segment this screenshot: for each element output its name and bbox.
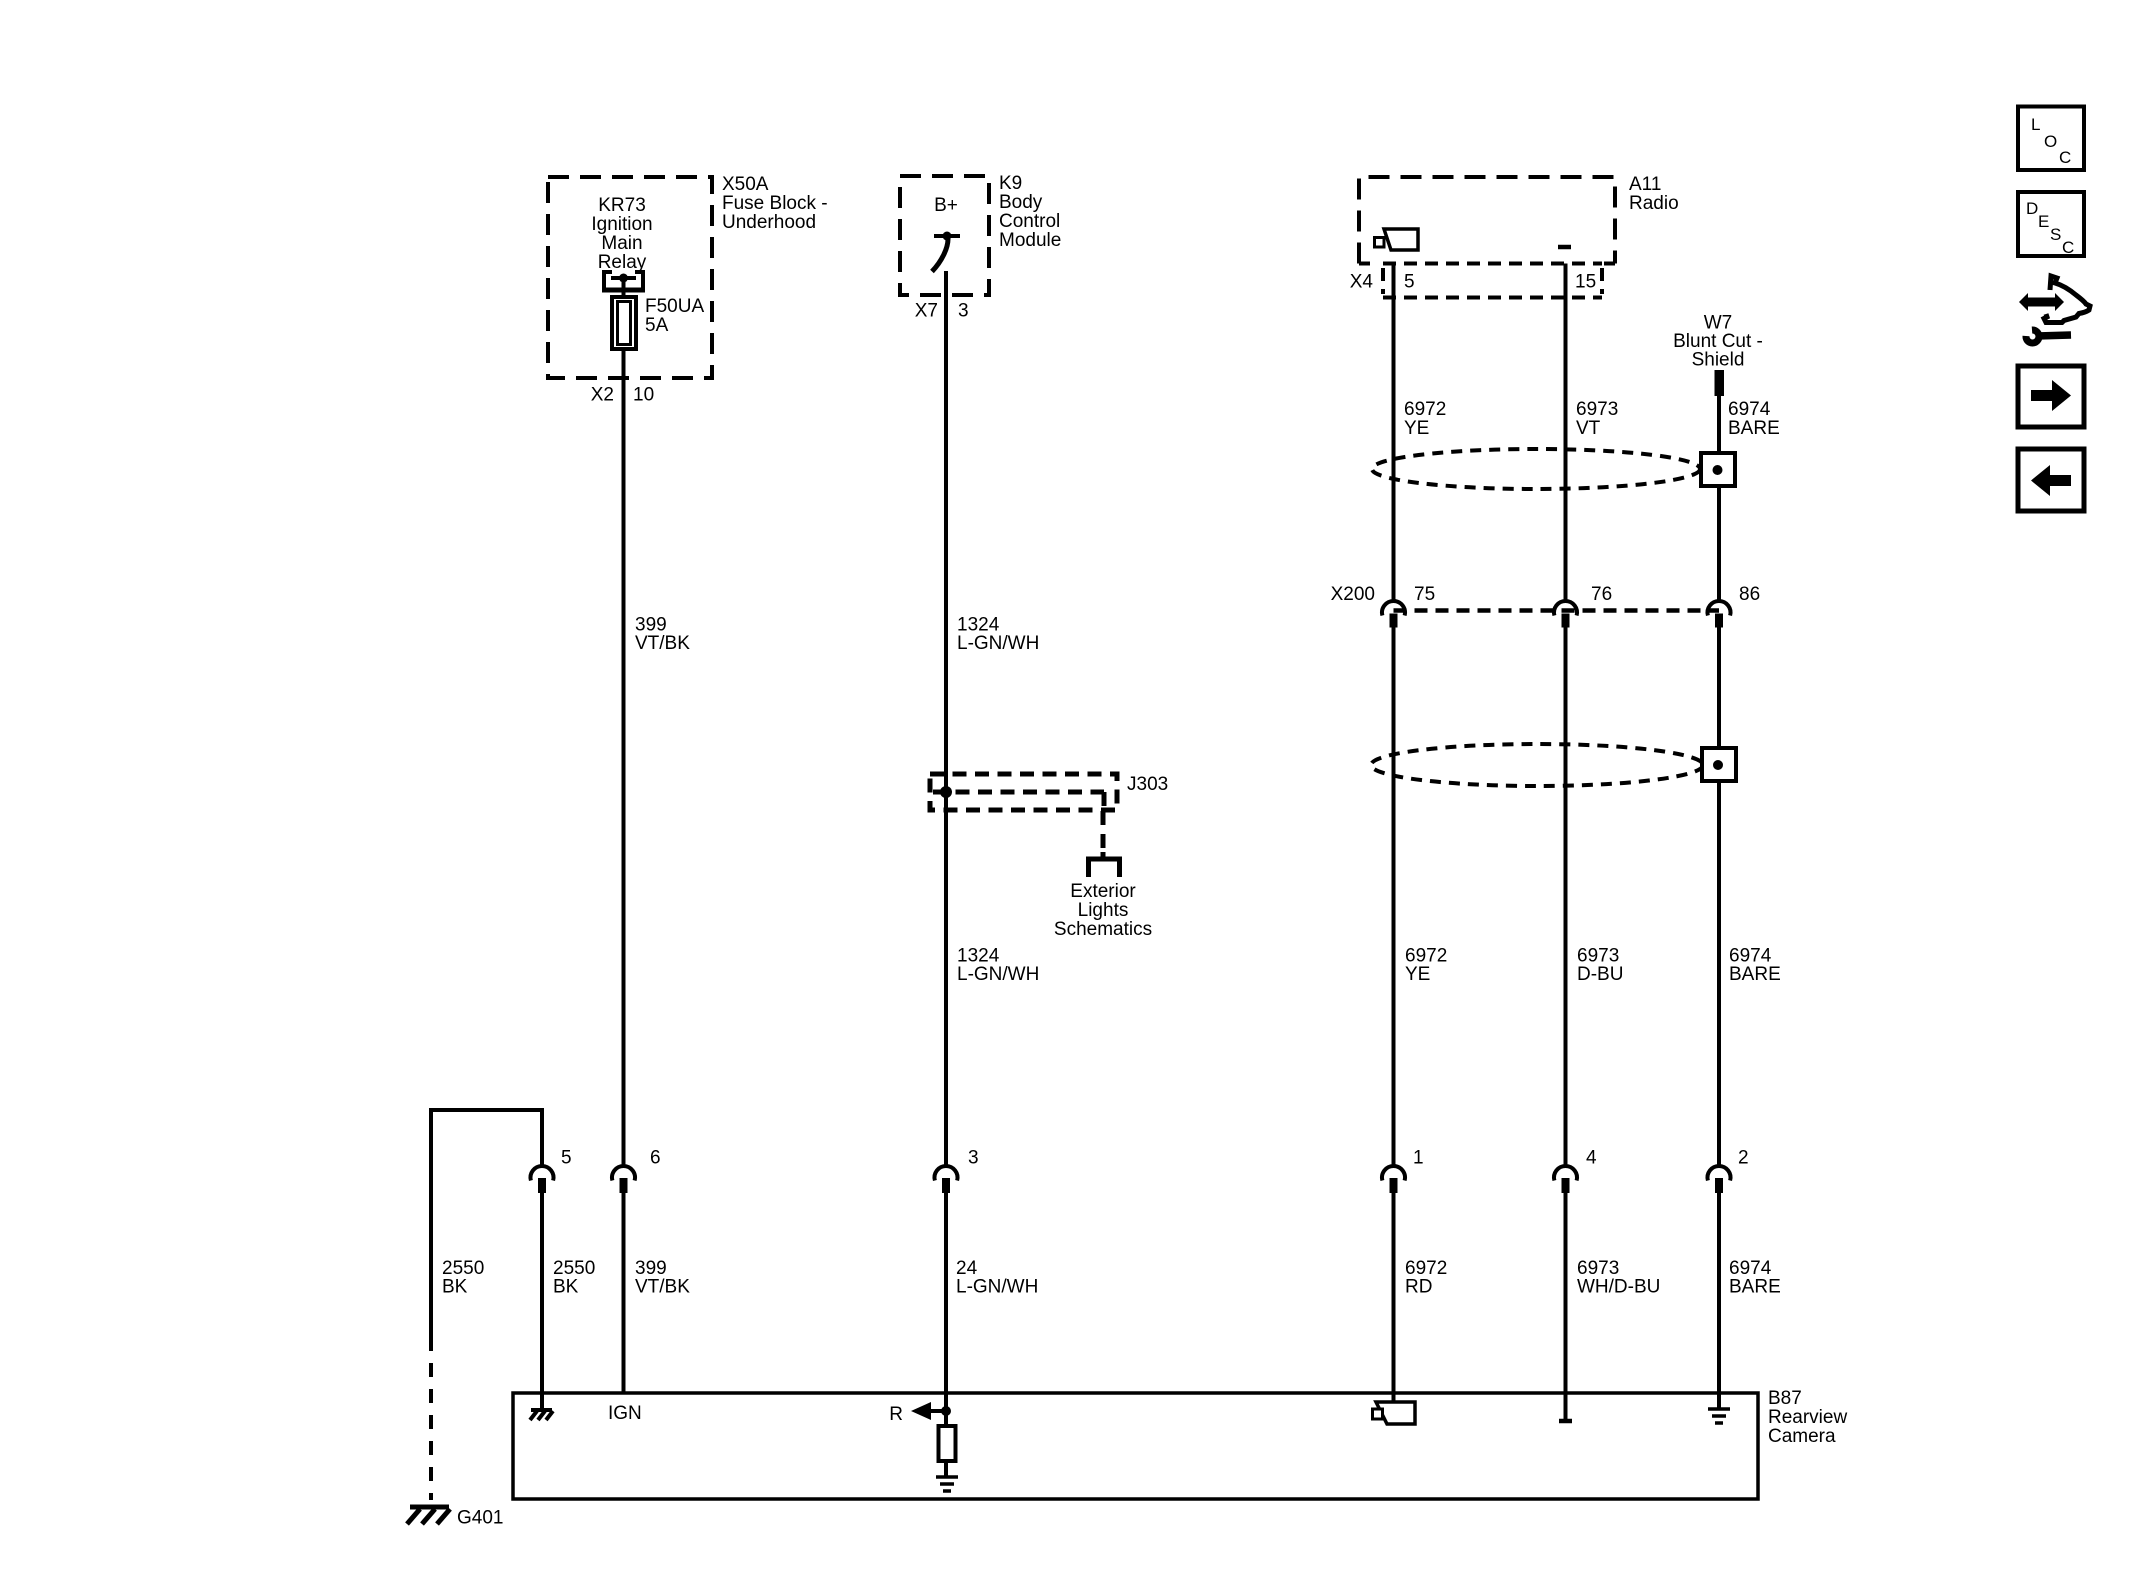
svg-text:Fuse Block -: Fuse Block - xyxy=(722,193,828,214)
svg-text:BK: BK xyxy=(553,1277,579,1298)
connector X200 dashed line xyxy=(1394,608,1720,613)
svg-text:Shield: Shield xyxy=(1692,350,1745,371)
wire label 2550 BK (pin 5) xyxy=(553,1258,595,1298)
svg-text:RD: RD xyxy=(1405,1277,1432,1298)
svg-text:86: 86 xyxy=(1739,584,1760,605)
node B+ xyxy=(934,195,958,216)
svg-text:15: 15 xyxy=(1575,272,1596,293)
R arrow xyxy=(911,1402,951,1420)
svg-text:O: O xyxy=(2044,132,2057,151)
svg-text:YE: YE xyxy=(1405,964,1430,985)
K9 Body Control Module label xyxy=(999,173,1061,251)
internal resistor xyxy=(939,1411,956,1477)
svg-text:IGN: IGN xyxy=(608,1403,642,1424)
splice junction dot on wire xyxy=(940,786,952,798)
wire label 6972 YE (middle) xyxy=(1405,946,1447,986)
wire 6974 BARE (blunt cut to X200) xyxy=(1717,396,1721,600)
svg-text:X50A: X50A xyxy=(722,174,769,195)
relay KR73 contact symbol xyxy=(602,272,645,290)
svg-text:Body: Body xyxy=(999,192,1043,213)
wire label 6972 YE (upper) xyxy=(1404,399,1446,439)
X200 pin 75 connector symbol xyxy=(1382,601,1405,628)
ground G401 symbol xyxy=(407,1507,450,1524)
rearview camera B87 box xyxy=(513,1393,1758,1499)
A11 Radio label xyxy=(1629,174,1679,214)
svg-text:L-GN/WH: L-GN/WH xyxy=(957,964,1039,985)
svg-text:Lights: Lights xyxy=(1078,900,1129,921)
svg-text:X4: X4 xyxy=(1350,272,1374,293)
W7 Blunt Cut - Shield label xyxy=(1673,313,1763,371)
svg-text:4: 4 xyxy=(1586,1148,1597,1169)
splice J303 dashed box xyxy=(930,774,1117,810)
minus pin icon in radio xyxy=(1558,245,1571,250)
svg-text:6974: 6974 xyxy=(1728,399,1771,420)
wire 6973 D-BU (X200 to pin 4) xyxy=(1564,627,1568,1165)
camera pin 5 connector symbol xyxy=(531,1148,572,1194)
svg-text:VT/BK: VT/BK xyxy=(635,1277,690,1298)
svg-text:B87: B87 xyxy=(1768,1388,1802,1409)
svg-text:5A: 5A xyxy=(645,315,669,336)
BCM switch symbol xyxy=(932,232,960,272)
svg-text:G401: G401 xyxy=(457,1508,503,1529)
svg-text:BARE: BARE xyxy=(1728,418,1780,439)
svg-text:J303: J303 xyxy=(1127,774,1168,795)
svg-text:76: 76 xyxy=(1591,584,1612,605)
radio A11 dashed box xyxy=(1359,177,1615,264)
svg-text:C: C xyxy=(2062,238,2074,257)
wire 399 VT/BK (fuse to pin 6) xyxy=(622,349,626,1165)
svg-text:F50UA: F50UA xyxy=(645,296,704,317)
wire pin 5 to camera box xyxy=(540,1193,544,1408)
camera pin 1 connector symbol xyxy=(1382,1148,1424,1194)
wire 1324 L-GN/WH (splice to pin 3) xyxy=(944,792,948,1165)
wire label 399 VT/BK (lower) xyxy=(635,1258,690,1298)
connector X4 labels xyxy=(1350,272,1596,293)
wire label 2550 BK (left) xyxy=(442,1258,484,1298)
wire label 6973 D-BU (middle) xyxy=(1577,946,1623,986)
svg-text:5: 5 xyxy=(1404,272,1415,293)
connector X7 pin 3 labels xyxy=(915,301,969,322)
svg-text:E: E xyxy=(2038,212,2049,231)
svg-text:VT: VT xyxy=(1576,418,1601,439)
wire pin 4 to minus pin xyxy=(1564,1193,1568,1419)
wire label 6974 BARE (lower) xyxy=(1729,1258,1781,1298)
Exterior Lights Schematics label xyxy=(1054,881,1152,940)
wire 1324 L-GN/WH (BCM to splice) xyxy=(944,271,948,792)
camera icon in radio xyxy=(1375,229,1419,250)
shield cable ellipse 1 xyxy=(1372,449,1735,489)
wire label 6974 BARE (middle) xyxy=(1729,946,1781,986)
svg-text:6972: 6972 xyxy=(1404,399,1446,420)
svg-text:6: 6 xyxy=(650,1148,661,1169)
svg-text:VT/BK: VT/BK xyxy=(635,633,690,654)
wire 6973 VT (radio to X200) xyxy=(1564,264,1568,601)
svg-text:BK: BK xyxy=(442,1277,468,1298)
connector X200 labels xyxy=(1331,584,1761,605)
svg-text:L: L xyxy=(2031,115,2040,134)
svg-text:A11: A11 xyxy=(1629,174,1661,195)
wire 6972 YE (X200 to pin 1) xyxy=(1392,627,1396,1165)
svg-text:Camera: Camera xyxy=(1768,1426,1836,1447)
svg-text:2: 2 xyxy=(1738,1148,1749,1169)
svg-text:1: 1 xyxy=(1413,1148,1424,1169)
svg-text:X2: X2 xyxy=(591,385,614,406)
wire label 6973 VT (upper) xyxy=(1576,399,1618,439)
X200 pin 86 connector symbol xyxy=(1708,601,1731,628)
X200 pin 76 connector symbol xyxy=(1554,601,1577,628)
sidebar LOC button xyxy=(2018,107,2084,171)
wire label 1324 L-GN/WH (upper) xyxy=(957,615,1039,655)
BCM K9 dashed box xyxy=(900,176,989,295)
svg-text:Main: Main xyxy=(601,233,642,254)
wire pin 1 to camera icon xyxy=(1392,1193,1396,1403)
sidebar DESC button xyxy=(2018,192,2084,257)
off-page connector fork to Exterior Lights xyxy=(1086,852,1122,877)
minus pin icon in camera box xyxy=(1559,1419,1572,1424)
svg-text:Underhood: Underhood xyxy=(722,212,816,233)
svg-text:Control: Control xyxy=(999,211,1060,232)
F50UA 5A value label xyxy=(645,296,704,336)
svg-text:75: 75 xyxy=(1414,584,1435,605)
svg-text:L-GN/WH: L-GN/WH xyxy=(957,633,1039,654)
svg-text:K9: K9 xyxy=(999,173,1022,194)
connector X4 dashed outline xyxy=(1359,264,1615,298)
wire label 1324 L-GN/WH (lower) xyxy=(957,946,1039,986)
B87 Rearview Camera label xyxy=(1768,1388,1847,1447)
svg-text:X7: X7 xyxy=(915,301,938,322)
sidebar next-page arrow button xyxy=(2018,366,2084,427)
ground wire 2550 BK horizontal jog xyxy=(431,1110,542,1337)
wire pin 3 into camera box xyxy=(944,1193,948,1411)
svg-text:6973: 6973 xyxy=(1576,399,1618,420)
wire pin 2 to ground pin xyxy=(1717,1193,1721,1409)
svg-text:Schematics: Schematics xyxy=(1054,919,1152,940)
svg-text:S: S xyxy=(2050,225,2061,244)
svg-text:Rearview: Rearview xyxy=(1768,1407,1847,1428)
wire relay to fuse xyxy=(622,278,626,299)
svg-text:R: R xyxy=(889,1404,903,1425)
svg-text:5: 5 xyxy=(561,1148,572,1169)
svg-text:Ignition: Ignition xyxy=(591,214,652,235)
sidebar prev-page arrow button xyxy=(2018,449,2084,511)
camera pin 4 connector symbol xyxy=(1554,1148,1597,1194)
wire 6972 YE (radio to X200) xyxy=(1392,264,1396,601)
KR73 Ignition Main Relay label xyxy=(591,195,652,273)
wire 6974 BARE (X200 to pin 2) xyxy=(1717,627,1721,1165)
X50A Fuse Block - Underhood label xyxy=(722,174,828,233)
svg-text:D-BU: D-BU xyxy=(1577,964,1623,985)
svg-text:BARE: BARE xyxy=(1729,1277,1781,1298)
wire label 6974 BARE (upper) xyxy=(1728,399,1780,439)
svg-text:X200: X200 xyxy=(1331,584,1375,605)
fuse block X50A dashed box xyxy=(548,177,712,378)
wire label 24 L-GN/WH (lower) xyxy=(956,1258,1038,1298)
ground wire dashed segment xyxy=(429,1337,433,1500)
shield cable ellipse 2 xyxy=(1371,744,1736,786)
svg-text:Exterior: Exterior xyxy=(1070,881,1136,902)
svg-text:10: 10 xyxy=(633,385,654,406)
svg-text:YE: YE xyxy=(1404,418,1429,439)
camera pin 2 connector symbol xyxy=(1708,1148,1749,1194)
svg-text:L-GN/WH: L-GN/WH xyxy=(956,1277,1038,1298)
connector X2 pin 10 labels xyxy=(591,385,654,406)
chassis ground pin (camera pin 5) xyxy=(530,1410,553,1420)
svg-text:KR73: KR73 xyxy=(598,195,646,216)
svg-text:D: D xyxy=(2026,199,2038,218)
wire label 6973 WH/D-BU (lower) xyxy=(1577,1258,1660,1298)
wire label 6972 RD (lower) xyxy=(1405,1258,1447,1298)
svg-text:Relay: Relay xyxy=(598,252,647,273)
wire label 399 VT/BK (upper) xyxy=(635,615,690,655)
wire pin 6 to camera box xyxy=(622,1193,626,1393)
svg-text:Radio: Radio xyxy=(1629,193,1679,214)
svg-text:BARE: BARE xyxy=(1729,964,1781,985)
svg-text:B+: B+ xyxy=(934,195,958,216)
camera pin 3 connector symbol xyxy=(935,1148,979,1194)
svg-text:C: C xyxy=(2059,148,2071,167)
camera icon in camera box xyxy=(1373,1402,1416,1424)
camera pin 6 connector symbol xyxy=(612,1148,661,1194)
svg-text:3: 3 xyxy=(968,1148,979,1169)
svg-text:3: 3 xyxy=(958,301,969,322)
fuse F50UA symbol xyxy=(612,297,636,349)
svg-text:WH/D-BU: WH/D-BU xyxy=(1577,1277,1660,1298)
earth ground (under resistor) xyxy=(936,1477,958,1491)
svg-text:Module: Module xyxy=(999,230,1061,251)
earth ground pin (camera pin 2) xyxy=(1708,1409,1730,1423)
sidebar schematic navigation icon (double arrow, outline, wrench) xyxy=(2019,276,2090,343)
dashed drop from J303 xyxy=(1101,811,1106,852)
blunt cut W7 terminal xyxy=(1715,370,1725,396)
